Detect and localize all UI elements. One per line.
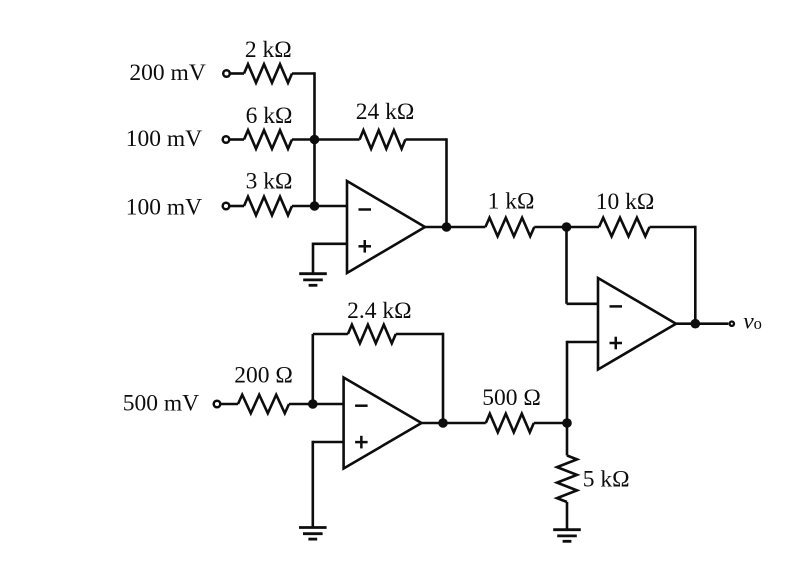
wire [565,227,568,304]
wire [405,138,446,141]
label 10 k&#937; [596,189,655,215]
wire [445,138,448,227]
ground [299,528,327,540]
svg-text:500 mV: 500 mV [123,390,199,416]
wire [292,205,347,208]
label 5 k&#937; [583,467,630,493]
wire [230,138,244,141]
op-amp U3 [598,278,676,370]
label 200 mV [129,60,205,86]
label 1 k&#937; [488,189,535,215]
label 6 k&#937; [246,103,293,129]
wire [442,333,445,423]
wire [567,341,598,344]
wire [425,226,485,229]
wire [567,302,599,305]
svg-text:2 kΩ: 2 kΩ [245,37,292,63]
svg-text:100 mV: 100 mV [126,126,202,152]
wire [315,138,360,141]
node inverting input U2 [308,399,318,409]
label 2.4 k&#937; [347,298,411,324]
ground [299,274,327,286]
op-amp U1 [347,181,425,273]
node inverting input U1 [310,201,320,211]
resistor R 1 k&#937; [485,218,534,237]
svg-text:100 mV: 100 mV [126,194,202,220]
resistor R 2 k&#937; [244,64,292,83]
svg-text:o: o [754,314,762,333]
label vo [743,308,762,334]
wire [566,341,569,423]
wire [230,72,244,75]
svg-text:1 kΩ: 1 kΩ [488,189,535,215]
node summing junction [310,135,320,145]
input terminal 500 mV [214,401,221,408]
svg-text:200 mV: 200 mV [129,60,205,86]
wire [694,226,697,324]
wire [566,502,569,530]
wire [422,422,486,425]
svg-text:10 kΩ: 10 kΩ [596,189,655,215]
wire [311,334,314,404]
ground [553,530,581,542]
resistor R 2.4 k&#937; [348,325,396,344]
resistor R 10 k&#937; [599,218,650,237]
wire [650,226,696,229]
wire [534,422,567,425]
svg-text:500 Ω: 500 Ω [482,385,541,411]
wire [221,403,238,406]
node U2 output [438,418,448,428]
wire [534,226,599,229]
node junction 1k/10k [562,222,572,232]
input terminal 100 mV (lower) [223,203,230,210]
resistor R 200 &#937; [238,395,289,414]
wire [289,403,344,406]
node U3 output [691,319,701,329]
label 24 k&#937; [356,99,415,125]
wire [313,243,347,246]
wire [292,138,315,141]
label 100 mV (lower) [126,194,202,220]
label 3 k&#937; [246,169,293,195]
wire [313,333,348,336]
svg-text:24 kΩ: 24 kΩ [356,99,415,125]
input terminal 100 mV [223,136,230,143]
svg-text:v: v [743,308,754,334]
node junction 500/5k [562,418,572,428]
wire [313,72,316,206]
label 100 mV [126,126,202,152]
svg-text:6 kΩ: 6 kΩ [246,103,293,129]
wire [292,72,315,75]
output terminal vo [730,322,734,326]
resistor R 500 &#937; [486,414,534,433]
svg-text:5 kΩ: 5 kΩ [583,467,630,493]
wire [311,441,314,528]
wire [676,322,728,325]
wire [566,423,569,456]
wire [312,243,315,274]
resistor R 5 k&#937; [557,456,577,503]
svg-text:200 Ω: 200 Ω [234,362,293,388]
input terminal 200 mV [223,70,230,77]
svg-text:3 kΩ: 3 kΩ [246,169,293,195]
svg-text:2.4 kΩ: 2.4 kΩ [347,298,411,324]
resistor R 24 k&#937; [360,130,406,149]
op-amp U2 [344,378,422,469]
wire [313,441,344,444]
resistor R 3 k&#937; [244,197,292,216]
resistor R 6 k&#937; [244,130,292,149]
node U1 output [442,222,452,232]
label 2 k&#937; [245,37,292,63]
label 200 &#937; [234,362,293,388]
wire [230,205,244,208]
label 500 &#937; [482,385,541,411]
wire [396,333,443,336]
label 500 mV [123,390,199,416]
